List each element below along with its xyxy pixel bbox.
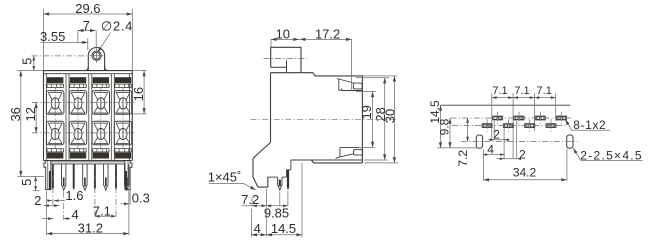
side view back pin	[287, 170, 289, 190]
bottom view top edge	[441, 104, 571, 106]
svg-text:30: 30	[383, 109, 398, 123]
dim 14.5 bottom view	[428, 100, 480, 148]
side view body outline	[253, 73, 362, 187]
dim 30 side	[362, 76, 398, 163]
svg-text:7.1: 7.1	[93, 203, 111, 218]
pad row centerline lower	[452, 125, 566, 127]
hole diameter label 2.4	[98, 19, 134, 53]
dark band bottom row	[47, 153, 131, 159]
slot row centerline	[461, 141, 578, 143]
svg-text:36: 36	[8, 107, 23, 121]
label 8-1x2	[565, 118, 610, 132]
svg-text:7.2: 7.2	[241, 192, 259, 207]
svg-text:7.1: 7.1	[492, 85, 507, 97]
svg-text:34.2: 34.2	[513, 166, 537, 180]
segmented strip top row	[47, 84, 131, 87]
pad row centerline upper	[451, 117, 572, 119]
svg-text:17.2: 17.2	[315, 27, 340, 42]
segmented strip bottom row	[47, 149, 131, 152]
dim 1.6	[47, 188, 83, 203]
dim 5 top	[19, 56, 43, 71]
svg-text:2: 2	[34, 193, 41, 208]
svg-text:9.85: 9.85	[264, 205, 289, 220]
dim 4 and 14.5 side	[251, 163, 302, 237]
dim 29.6	[44, 1, 133, 70]
svg-text:4: 4	[254, 221, 261, 236]
bottom recessed edge	[51, 163, 125, 165]
dim 7.2 side	[241, 189, 266, 207]
dim 9.8 bottom view	[437, 118, 451, 148]
svg-text:7.1: 7.1	[537, 85, 552, 97]
dim 4 bottom view	[483, 143, 505, 181]
dim 2 bottom left	[34, 193, 59, 208]
svg-text:7.1: 7.1	[514, 85, 529, 97]
pole centerlines	[55, 87, 123, 149]
svg-text:29.6: 29.6	[75, 1, 100, 16]
label 2-2.5x4.5	[573, 148, 643, 162]
dim 0.3	[121, 190, 150, 236]
dim 9.85 side	[264, 191, 289, 220]
dim 28 side	[356, 78, 389, 160]
dim 7.2 bottom view	[456, 118, 470, 167]
svg-text:2-2.5×4.5: 2-2.5×4.5	[580, 148, 643, 162]
side tab centerline	[264, 57, 308, 59]
svg-text:5: 5	[19, 58, 34, 65]
svg-text:0.3: 0.3	[132, 190, 150, 205]
mounting hole	[90, 49, 104, 63]
svg-text:12: 12	[23, 107, 38, 121]
front row solder pins	[62, 164, 129, 190]
svg-text:19: 19	[359, 105, 374, 119]
dim 36	[8, 71, 44, 177]
side view centerline	[251, 118, 397, 120]
dim 34.2	[483, 149, 567, 182]
dim 7.1 chain bottom view	[492, 85, 556, 159]
screw cells lower row	[47, 121, 132, 145]
pin centerline extensions	[53, 164, 116, 220]
dim 3.55	[40, 29, 88, 50]
dim 17.2 side	[299, 27, 351, 91]
dim 2 bottom view second	[497, 121, 527, 161]
svg-text:8-1x2: 8-1x2	[573, 118, 606, 132]
dim 31.2	[47, 191, 129, 236]
svg-text:1.6: 1.6	[65, 188, 83, 203]
front view body outline	[44, 71, 133, 162]
dim 5 bottom	[19, 177, 40, 191]
screw cells upper row	[47, 91, 132, 115]
dim 19 side	[356, 92, 376, 148]
dim 2 bottom view first	[488, 121, 510, 159]
back row solder pins	[52, 164, 117, 190]
svg-text:16: 16	[131, 87, 146, 101]
dim 16	[129, 71, 147, 114]
dim 12	[23, 102, 38, 132]
mounting tab (front view)	[85, 48, 109, 71]
svg-text:9.8: 9.8	[437, 118, 451, 135]
front view pole partitions	[66, 74, 114, 161]
chamfer callout 1x45	[208, 169, 256, 190]
dim 7.1 front view	[93, 203, 116, 218]
svg-text:2: 2	[519, 147, 526, 161]
svg-text:5: 5	[19, 179, 34, 186]
dark band top row	[47, 77, 131, 83]
dim 7	[78, 18, 96, 49]
lower clamp pocket (side view)	[336, 147, 363, 158]
svg-text:10: 10	[276, 27, 290, 42]
svg-text:4: 4	[487, 143, 494, 157]
screw row centerline upper	[32, 101, 136, 103]
svg-text:7.2: 7.2	[456, 150, 470, 167]
dim 4 bottom left	[42, 207, 79, 222]
mounting slot right	[567, 135, 573, 148]
svg-text:2: 2	[493, 127, 500, 141]
pads upper row	[493, 112, 567, 125]
svg-text:31.2: 31.2	[78, 221, 103, 236]
svg-text:7: 7	[83, 18, 90, 33]
dim 10 side	[271, 27, 299, 47]
svg-text:14.5: 14.5	[271, 221, 296, 236]
upper clamp pocket (side view)	[337, 79, 362, 91]
side view front pin	[278, 177, 282, 190]
tab centerline	[32, 55, 88, 57]
right latch	[125, 161, 132, 190]
svg-text:1×45˚: 1×45˚	[208, 169, 242, 184]
svg-text:∅2.4: ∅2.4	[101, 19, 133, 34]
left latch	[44, 161, 51, 190]
pads lower row	[482, 119, 556, 132]
svg-text:3.55: 3.55	[40, 29, 65, 44]
screw row centerline lower	[32, 132, 136, 134]
side view mounting tab	[271, 47, 301, 72]
mounting slot left	[476, 135, 482, 148]
